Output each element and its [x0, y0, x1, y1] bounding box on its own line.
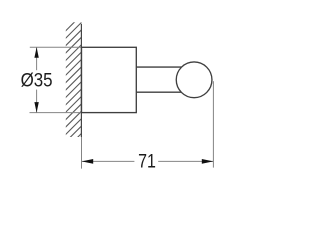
svg-text:71: 71	[138, 151, 156, 173]
svg-text:Ø35: Ø35	[21, 70, 53, 92]
